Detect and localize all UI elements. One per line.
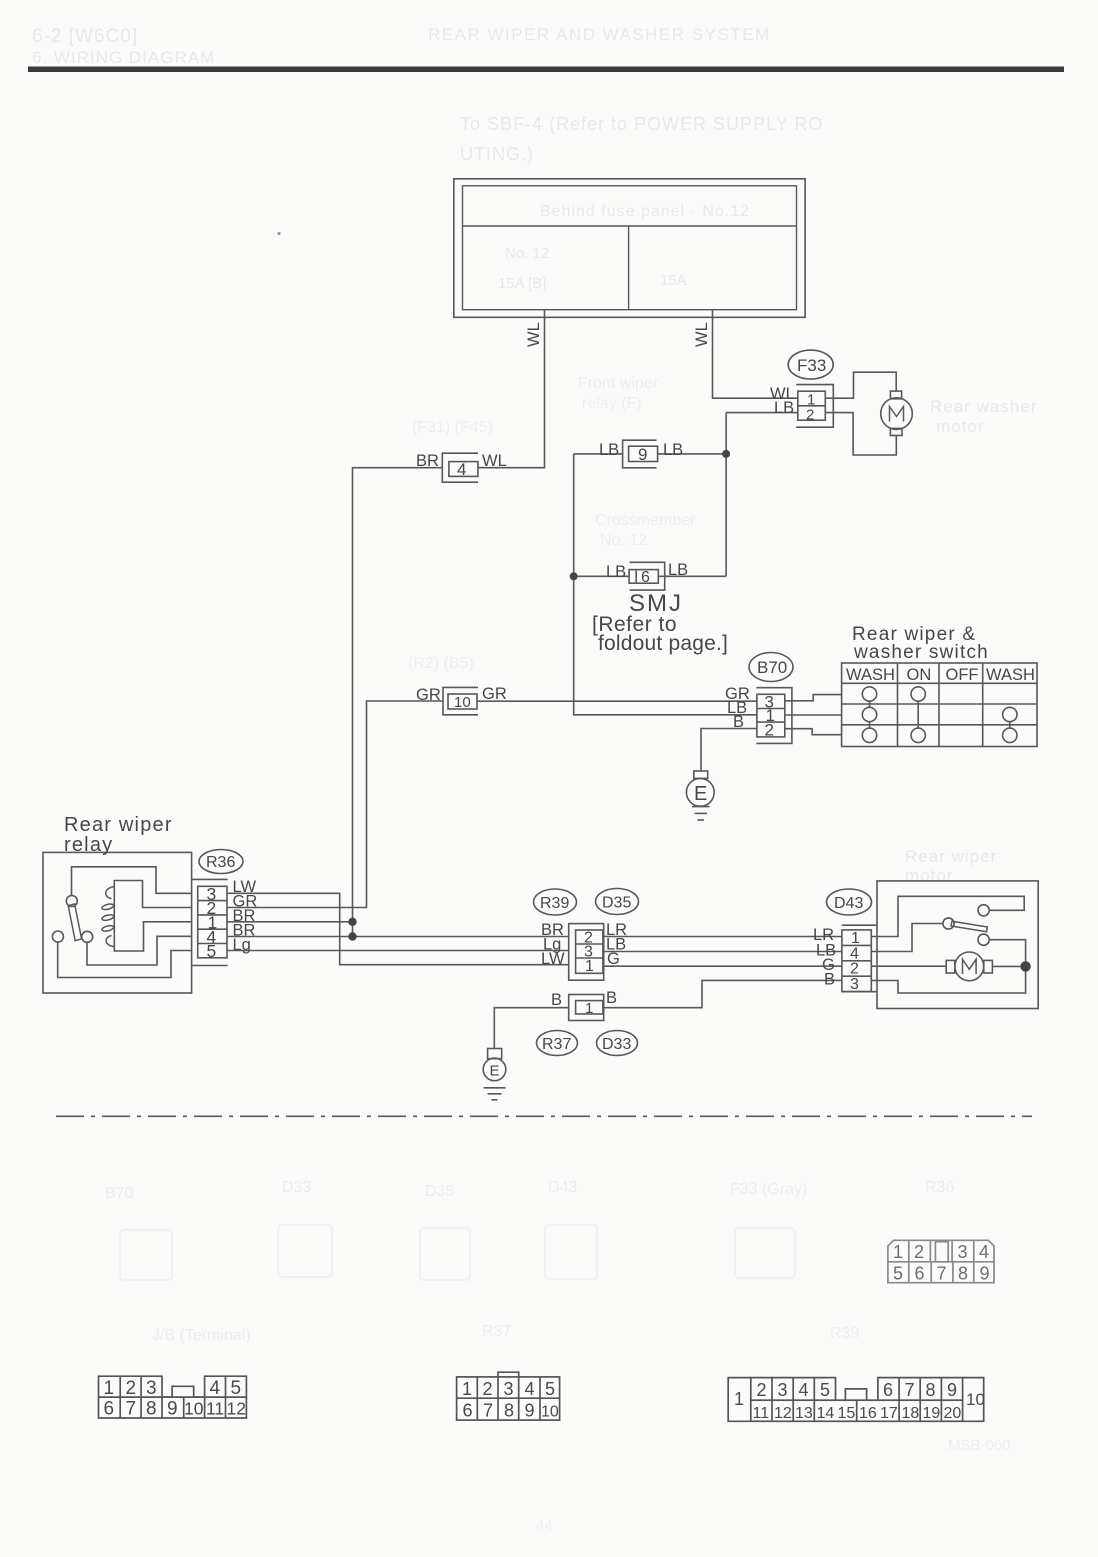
svg-text:D35: D35 [602,895,631,912]
svg-text:LB: LB [599,441,619,459]
junction dot SMJ left [570,572,578,580]
svg-text:WL: WL [525,322,543,347]
motor left terminal [946,960,955,973]
wire B70 pin2 to table [785,729,842,735]
wire B from B70 pin2 to ground [701,729,757,772]
svg-text:15: 15 [838,1405,856,1422]
svg-text:2: 2 [126,1378,137,1399]
svg-text:6. WIRING DIAGRAM: 6. WIRING DIAGRAM [32,48,215,67]
svg-text:LB: LB [668,561,688,579]
wire WL left vertical from fuse box [478,310,545,468]
svg-text:15A [B]: 15A [B] [498,275,546,292]
ground B70 terminal rect [694,771,708,778]
svg-text:2: 2 [806,407,814,424]
svg-text:To SBF-4 (Refer to POWER S: To SBF-4 (Refer to POWER SUPPLY RO [460,114,823,134]
svg-text:D33: D33 [602,1036,631,1053]
junction dot connector9/LB [722,450,730,458]
ground B70 circle [686,778,714,806]
svg-text:MSB-060: MSB-060 [948,1437,1011,1454]
svg-text:8: 8 [504,1401,514,1421]
svg-text:F33: F33 [797,356,826,375]
svg-text:R37: R37 [482,1323,511,1340]
svg-text:2: 2 [483,1379,493,1399]
svg-text:LB: LB [663,441,683,459]
20-pin connector view [728,1378,984,1422]
wire GR left of connector 10 down to relay [227,701,443,908]
svg-text:7: 7 [937,1264,947,1284]
wire BR pin1 R36 to junction [227,921,353,923]
wire F33 pin1 to washer motor [825,372,896,398]
svg-text:3: 3 [504,1379,514,1399]
connector 6 box [629,570,658,584]
switch contact links [869,701,871,707]
junction dot BR pin1 [348,918,356,926]
washer motor bottom terminal [890,428,902,435]
svg-text:8: 8 [146,1399,157,1420]
svg-text:LB: LB [774,399,794,417]
R36 pin box [198,886,227,958]
svg-text:5: 5 [207,941,217,961]
svg-text:4: 4 [525,1379,535,1399]
svg-text:4: 4 [979,1242,989,1262]
washer motor body [881,398,913,430]
wire B70 pin1 to table [785,714,842,716]
svg-text:BR: BR [416,452,439,470]
svg-text:D43: D43 [834,895,863,912]
D43 pin box [842,930,871,992]
svg-text:10: 10 [541,1404,559,1421]
top rule bar [28,67,1064,73]
wire LB vertical junction line [725,413,727,577]
svg-text:4: 4 [799,1380,809,1400]
washer motor top terminal [890,391,901,399]
svg-text:motor: motor [936,417,984,436]
svg-text:15A: 15A [660,272,687,289]
svg-text:7: 7 [905,1380,915,1400]
svg-text:B70: B70 [105,1185,134,1202]
svg-text:10: 10 [966,1390,985,1409]
svg-text:Crossmember: Crossmember [595,512,696,529]
wires LR LB G to D43 [604,936,842,938]
svg-text:14: 14 [817,1405,835,1422]
svg-text:Rear washer: Rear washer [930,397,1037,416]
svg-text:Lg: Lg [233,936,251,954]
fuse box inner [463,186,797,310]
svg-text:R36: R36 [206,854,235,871]
B70 bracket [756,688,792,744]
svg-text:9: 9 [980,1264,990,1284]
svg-text:9: 9 [525,1401,535,1421]
connector 4 box [449,462,478,477]
svg-text:2: 2 [757,1380,767,1400]
relay switch blade [68,904,81,941]
svg-text:17: 17 [880,1405,898,1422]
svg-text:D33: D33 [282,1179,311,1196]
svg-text:6: 6 [883,1380,893,1400]
R37 ellipse [537,1031,578,1056]
wire GR right of connector 10 to B70 pin3 [477,700,757,702]
svg-text:ON: ON [907,666,932,684]
svg-text:9: 9 [947,1380,957,1400]
svg-text:5: 5 [820,1380,830,1400]
wire D43 pin3 bottom path [871,966,1025,993]
svg-text:B: B [733,713,744,731]
wire LW pin3 R36 to R39 [227,893,569,964]
10-pin connector view [457,1372,560,1420]
relay coil [114,881,191,952]
svg-text:B: B [606,989,617,1007]
R36 bracket [192,878,228,880]
connector 4 bracket [442,453,478,482]
wire LB left of connector 9 [574,453,623,455]
svg-text:relay: relay [64,834,113,856]
svg-text:6: 6 [463,1401,473,1421]
svg-text:5: 5 [893,1264,903,1284]
motor M mark [963,959,977,974]
svg-text:relay (F): relay (F) [582,395,642,412]
svg-text:GR: GR [416,686,441,704]
wire B from R37 to ground [494,1008,568,1049]
R37/D33 connector outer [569,995,604,1021]
wire LB left of connector 6 [574,575,629,577]
wire Lg pin5 R36 to R39 [227,950,569,952]
R39/D35 connector outer [569,924,604,981]
wire B70 pin3 to table [785,695,842,701]
ground R37 circle [483,1058,506,1081]
svg-text:2: 2 [765,721,774,740]
R36 ellipse [199,850,243,874]
fuse box vertical divider [628,226,630,310]
relay switch top contact [66,896,77,907]
svg-text:Front wiper: Front wiper [578,375,659,392]
12-pin connector view [99,1376,247,1418]
lower contact circle [978,934,989,945]
D43 ellipse [827,889,872,915]
connector 6 bracket [630,562,665,590]
ground B70 lines [692,806,710,808]
wire D43 pin1 to park contact [871,896,1024,936]
svg-text:4: 4 [457,460,466,479]
D35 ellipse [596,889,639,915]
wire BR from connector 4 down to relay junctions [353,468,443,937]
svg-text:20: 20 [944,1405,962,1422]
svg-text:G: G [607,950,620,968]
wire LB right of connector 9 to junction [658,453,727,455]
rear wiper relay box [43,852,192,993]
svg-text:UTING.): UTING.) [460,144,534,164]
svg-text:E: E [490,1063,500,1080]
svg-text:16: 16 [859,1405,877,1422]
svg-text:4: 4 [210,1378,221,1399]
svg-text:3: 3 [850,976,859,993]
switch table frame [842,663,1037,747]
svg-text:No. 12: No. 12 [600,532,647,549]
B70 ellipse [749,653,793,682]
D43 bracket [842,924,877,926]
svg-text:motor: motor [905,866,953,885]
washer motor M mark [890,407,904,422]
svg-text:F33 (Gray): F33 (Gray) [730,1181,807,1198]
svg-text:R39: R39 [830,1325,859,1342]
svg-text:1: 1 [585,1000,593,1017]
svg-text:5: 5 [545,1379,555,1399]
rear wiper motor body [955,952,984,981]
junction dot BR pin4 [348,932,356,940]
svg-text:B: B [824,971,835,989]
svg-text:D35: D35 [425,1183,454,1200]
svg-text:B: B [551,991,562,1009]
relay wire pin5 to bottom-left contact [58,942,192,978]
wire D43 pin2 to motor [871,965,946,967]
F33 ellipse [788,350,833,379]
motor switch blade [951,921,987,932]
wire B from D33 to D43 [604,980,842,1007]
R37/D33 pin box [576,1001,603,1014]
svg-text:7: 7 [126,1399,137,1420]
svg-text:WASH: WASH [846,666,895,684]
connector 9 bracket [623,440,657,468]
svg-text:10: 10 [184,1399,204,1419]
svg-text:44: 44 [536,1517,553,1534]
svg-text:10: 10 [454,694,471,711]
D33 ellipse [597,1031,638,1056]
svg-text:6-2 [W6C0]: 6-2 [W6C0] [32,26,138,47]
svg-text:11: 11 [206,1399,224,1419]
svg-text:3: 3 [958,1242,968,1262]
F33 connector box [798,391,826,420]
svg-text:No. 12: No. 12 [505,245,549,262]
ground R37 lines [484,1087,506,1089]
svg-text:Rear wiper: Rear wiper [64,814,173,836]
switch contacts circles [862,687,876,701]
svg-text:13: 13 [795,1405,813,1422]
relay wire pin3 to switch top contact [72,867,192,896]
svg-text:18: 18 [902,1405,920,1422]
ground R37 terminal rect [488,1049,502,1059]
svg-text:REAR WIPER AND WASHER SYSTEM: REAR WIPER AND WASHER SYSTEM [428,25,771,44]
faint ghost section (connector views washed out) [105,1179,1011,1534]
wire LB right of connector 6 [658,575,726,577]
svg-text:1: 1 [462,1379,472,1399]
park contact circle [978,905,989,916]
svg-text:19: 19 [923,1405,941,1422]
wire lower contact to junction [989,940,1025,963]
pivot contact circle [943,918,954,929]
svg-text:B70: B70 [757,658,787,677]
relay wire pin4 to bottom-right contact [87,936,192,965]
svg-text:6: 6 [104,1399,115,1420]
wire LB left vertical SMJ line [574,454,757,715]
svg-text:1: 1 [734,1389,744,1409]
motor right terminal [984,960,993,973]
R39/D35 pin box [576,930,603,973]
svg-text:Rear wiper: Rear wiper [905,847,997,866]
svg-text:9: 9 [638,445,647,464]
svg-text:J/B (Terminal): J/B (Terminal) [152,1327,251,1344]
svg-text:2: 2 [914,1242,924,1262]
connector 9 box [629,446,658,461]
stray scan speck [277,232,280,235]
F33 connector bracket [796,385,833,428]
faint page header ghost text [32,25,1037,885]
svg-text:R37: R37 [542,1036,571,1053]
svg-text:washer switch: washer switch [853,642,989,663]
svg-text:WL: WL [482,452,507,470]
wire D43 pin4 to pivot contact [871,924,943,952]
B70 pin box [757,694,785,737]
svg-text:11: 11 [753,1405,770,1422]
svg-text:6: 6 [641,569,650,586]
9-pin connector view (R36) [888,1240,994,1282]
svg-text:12: 12 [227,1399,246,1419]
svg-text:R36: R36 [925,1179,954,1196]
svg-text:1: 1 [893,1242,903,1262]
svg-text:Behind fuse panel · No.12: Behind fuse panel · No.12 [540,203,750,220]
svg-text:5: 5 [231,1378,242,1399]
svg-text:(R2) (B5): (R2) (B5) [408,655,474,672]
svg-text:GR: GR [482,685,507,703]
svg-text:7: 7 [483,1401,493,1421]
rear wiper motor box [877,881,1038,1009]
wire motor to junction [992,965,1026,967]
svg-text:WASH: WASH [986,666,1035,684]
svg-text:foldout page.]: foldout page.] [598,632,728,655]
connector 10 bracket [443,687,478,714]
svg-text:6: 6 [915,1264,925,1284]
fuse box outer [454,179,805,317]
svg-text:8: 8 [926,1380,936,1400]
svg-text:1: 1 [585,958,594,975]
svg-text:OFF: OFF [946,666,979,684]
svg-text:(F31) (F45): (F31) (F45) [412,419,493,436]
fuse box header divider [463,225,797,227]
svg-text:1: 1 [104,1378,115,1399]
svg-text:R39: R39 [540,895,569,912]
svg-text:12: 12 [774,1405,792,1422]
svg-text:LW: LW [541,950,565,968]
dash-dot section divider [56,1115,1032,1117]
R39 ellipse [534,889,577,915]
svg-text:E: E [694,783,707,805]
junction dot D43 motor [1020,961,1030,971]
svg-text:WL: WL [693,322,711,347]
svg-text:D43: D43 [548,1179,577,1196]
wire F33 pin2 to washer motor [825,413,896,455]
relay switch bottom-right contact [82,931,93,942]
connector 10 box [448,694,477,709]
svg-text:LB: LB [606,563,626,581]
svg-text:8: 8 [958,1264,968,1284]
wire BR pin4 R36 to R39 [227,936,569,938]
svg-text:3: 3 [778,1380,788,1400]
svg-text:9: 9 [167,1399,178,1420]
wire WL right vertical from fuse box [713,310,798,399]
relay switch bottom-left contact [52,931,63,942]
svg-text:3: 3 [146,1378,157,1399]
wire LB from F33 pin2 [726,412,798,414]
